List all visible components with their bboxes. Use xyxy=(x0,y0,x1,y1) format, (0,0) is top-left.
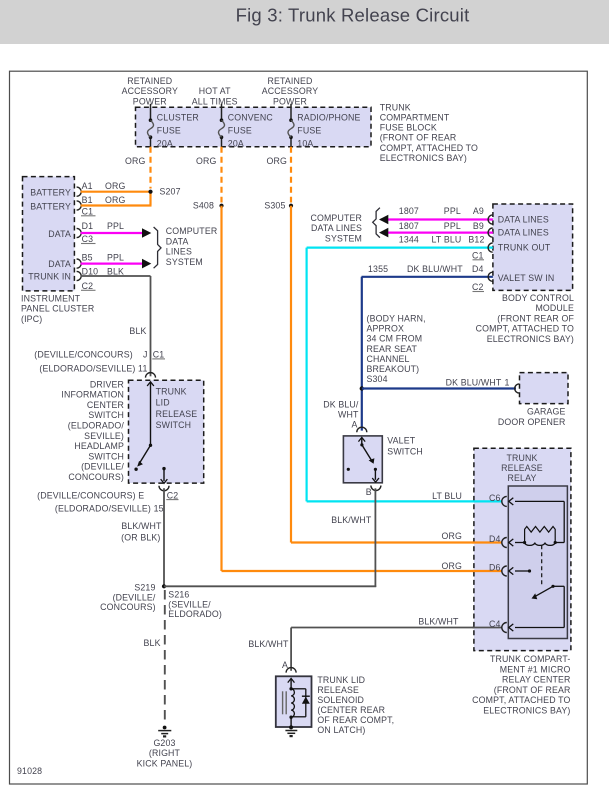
svg-text:DK BLU/: DK BLU/ xyxy=(323,399,359,409)
svg-text:BODY CONTROL: BODY CONTROL xyxy=(502,293,574,303)
svg-text:S408: S408 xyxy=(193,201,214,211)
svg-text:1355: 1355 xyxy=(368,264,388,274)
svg-text:(ELDORADO/SEVILLE) 15: (ELDORADO/SEVILLE) 15 xyxy=(55,503,164,513)
svg-text:DATA LINES: DATA LINES xyxy=(498,215,549,225)
svg-text:APPROX: APPROX xyxy=(367,323,405,333)
svg-text:20A: 20A xyxy=(228,139,244,149)
svg-text:(DEVILLE/: (DEVILLE/ xyxy=(81,462,124,472)
svg-text:COMPT, ATTACHED TO: COMPT, ATTACHED TO xyxy=(472,695,570,705)
svg-text:ACCESSORY: ACCESSORY xyxy=(262,86,318,96)
svg-text:PPL: PPL xyxy=(107,253,124,263)
svg-text:1344: 1344 xyxy=(399,235,419,245)
svg-text:ELDORADO): ELDORADO) xyxy=(168,609,222,619)
svg-text:TRUNK: TRUNK xyxy=(506,453,537,463)
svg-text:TRUNK IN: TRUNK IN xyxy=(28,271,71,281)
svg-text:RETAINED: RETAINED xyxy=(267,76,312,86)
svg-text:B5: B5 xyxy=(82,253,93,263)
svg-text:INFORMATION: INFORMATION xyxy=(61,390,124,400)
svg-text:A: A xyxy=(351,420,357,430)
svg-text:MODULE: MODULE xyxy=(535,303,574,313)
svg-text:91028: 91028 xyxy=(17,766,42,776)
svg-text:C1: C1 xyxy=(153,350,165,360)
svg-text:BATTERY: BATTERY xyxy=(30,188,71,198)
svg-text:D4: D4 xyxy=(489,534,501,544)
svg-text:(RIGHT: (RIGHT xyxy=(149,748,181,758)
svg-text:CLUSTER: CLUSTER xyxy=(157,112,199,122)
svg-text:DATA LINES: DATA LINES xyxy=(311,223,362,233)
svg-text:VALET SW IN: VALET SW IN xyxy=(498,273,555,283)
svg-text:HOT AT: HOT AT xyxy=(199,86,231,96)
svg-text:C1: C1 xyxy=(472,251,484,261)
svg-text:ORG: ORG xyxy=(442,531,463,541)
svg-text:S219: S219 xyxy=(134,583,155,593)
svg-text:HEADLAMP: HEADLAMP xyxy=(74,441,124,451)
svg-text:GARAGE: GARAGE xyxy=(527,407,566,417)
svg-text:BLK/WHT: BLK/WHT xyxy=(331,515,372,525)
svg-text:DATA LINES: DATA LINES xyxy=(498,228,549,238)
svg-text:FUSE: FUSE xyxy=(157,125,181,135)
svg-text:C6: C6 xyxy=(489,493,501,503)
svg-text:FUSE BLOCK: FUSE BLOCK xyxy=(380,123,437,133)
svg-text:CONCOURS): CONCOURS) xyxy=(68,472,124,482)
svg-text:C3: C3 xyxy=(82,234,94,244)
svg-text:C2: C2 xyxy=(472,282,484,292)
svg-text:TRUNK: TRUNK xyxy=(156,387,187,397)
svg-text:SWITCH: SWITCH xyxy=(156,420,192,430)
svg-text:BLK: BLK xyxy=(107,267,124,277)
svg-text:LT BLU: LT BLU xyxy=(432,235,462,245)
svg-text:ORG: ORG xyxy=(442,561,463,571)
svg-text:D10: D10 xyxy=(82,267,99,277)
svg-text:C2: C2 xyxy=(82,281,94,291)
svg-text:(DEVILLE/CONCOURS): (DEVILLE/CONCOURS) xyxy=(34,350,133,360)
svg-text:TRUNK LID: TRUNK LID xyxy=(317,675,365,685)
svg-text:C1: C1 xyxy=(82,207,94,217)
svg-text:ELECTRONICS BAY): ELECTRONICS BAY) xyxy=(487,334,574,344)
svg-text:BREAKOUT): BREAKOUT) xyxy=(367,364,420,374)
svg-text:TRUNK OUT: TRUNK OUT xyxy=(498,242,551,252)
svg-text:TRUNK COMPART-: TRUNK COMPART- xyxy=(490,654,570,664)
svg-text:(FRONT REAR OF: (FRONT REAR OF xyxy=(497,313,574,323)
svg-text:BLK/WHT: BLK/WHT xyxy=(418,617,459,627)
svg-text:Fig 3: Trunk Release Circuit: Fig 3: Trunk Release Circuit xyxy=(236,4,470,25)
svg-text:PANEL CLUSTER: PANEL CLUSTER xyxy=(21,304,94,314)
svg-text:ALL TIMES: ALL TIMES xyxy=(192,97,238,107)
svg-text:BLK: BLK xyxy=(129,326,146,336)
svg-text:LINES: LINES xyxy=(166,247,192,257)
svg-text:CONCOURS): CONCOURS) xyxy=(100,602,156,612)
svg-text:DATA: DATA xyxy=(48,259,71,269)
svg-text:DATA: DATA xyxy=(166,236,189,246)
svg-text:INSTRUMENT: INSTRUMENT xyxy=(21,293,81,303)
svg-text:DOOR OPENER: DOOR OPENER xyxy=(498,417,566,427)
svg-text:RELEASE: RELEASE xyxy=(156,409,198,419)
svg-text:COMPT, ATTACHED TO: COMPT, ATTACHED TO xyxy=(476,324,574,334)
svg-text:SYSTEM: SYSTEM xyxy=(325,233,362,243)
svg-text:ORG: ORG xyxy=(267,156,288,166)
svg-text:CENTER: CENTER xyxy=(87,400,124,410)
svg-text:DRIVER: DRIVER xyxy=(90,379,124,389)
svg-text:(DEVILLE/CONCOURS) E: (DEVILLE/CONCOURS) E xyxy=(37,490,144,500)
svg-text:S216: S216 xyxy=(168,590,189,600)
svg-text:RETAINED: RETAINED xyxy=(127,76,172,86)
svg-text:ON LATCH): ON LATCH) xyxy=(317,725,365,735)
svg-text:COMPARTMENT: COMPARTMENT xyxy=(380,113,450,123)
svg-text:RELEASE: RELEASE xyxy=(501,463,543,473)
svg-text:(CENTER REAR: (CENTER REAR xyxy=(317,705,385,715)
svg-text:LT BLU: LT BLU xyxy=(432,491,462,501)
svg-text:ORG: ORG xyxy=(105,181,126,191)
svg-text:10A: 10A xyxy=(297,139,313,149)
svg-text:B12: B12 xyxy=(468,235,484,245)
svg-text:D1: D1 xyxy=(82,221,94,231)
svg-text:A1: A1 xyxy=(82,181,93,191)
svg-text:(ELDORADO/: (ELDORADO/ xyxy=(68,420,125,430)
svg-text:SWITCH: SWITCH xyxy=(387,446,423,456)
svg-text:PPL: PPL xyxy=(444,206,461,216)
svg-text:ACCESSORY: ACCESSORY xyxy=(122,86,178,96)
svg-text:ELECTRONICS BAY): ELECTRONICS BAY) xyxy=(380,153,467,163)
svg-text:SOLENOID: SOLENOID xyxy=(317,695,364,705)
svg-text:(FRONT OF REAR: (FRONT OF REAR xyxy=(380,133,457,143)
svg-text:OF REAR COMPT,: OF REAR COMPT, xyxy=(317,715,394,725)
svg-text:SEVILLE): SEVILLE) xyxy=(84,431,124,441)
svg-text:1807: 1807 xyxy=(399,206,419,216)
svg-text:POWER: POWER xyxy=(273,97,307,107)
svg-text:LID: LID xyxy=(156,398,170,408)
svg-text:J: J xyxy=(143,350,148,360)
svg-text:BATTERY: BATTERY xyxy=(30,201,71,211)
svg-text:FUSE: FUSE xyxy=(228,125,252,135)
svg-text:FUSE: FUSE xyxy=(297,125,321,135)
svg-text:COMPT, ATTACHED TO: COMPT, ATTACHED TO xyxy=(380,143,478,153)
svg-text:(SEVILLE/: (SEVILLE/ xyxy=(168,599,211,609)
svg-text:20A: 20A xyxy=(157,139,173,149)
svg-text:34 CM FROM: 34 CM FROM xyxy=(367,334,423,344)
svg-text:CONVENC: CONVENC xyxy=(228,112,274,122)
svg-text:(IPC): (IPC) xyxy=(21,314,42,324)
svg-text:S207: S207 xyxy=(160,187,181,197)
svg-text:COMPUTER: COMPUTER xyxy=(310,213,362,223)
svg-text:ORG: ORG xyxy=(105,195,126,205)
svg-text:DK BLU/WHT: DK BLU/WHT xyxy=(407,264,463,274)
svg-text:(BODY HARN,: (BODY HARN, xyxy=(367,313,426,323)
svg-text:SWITCH: SWITCH xyxy=(88,451,124,461)
svg-text:C4: C4 xyxy=(489,619,501,629)
svg-text:ORG: ORG xyxy=(196,156,217,166)
svg-text:D4: D4 xyxy=(472,264,484,274)
svg-text:B: B xyxy=(366,487,372,497)
svg-text:COMPUTER: COMPUTER xyxy=(166,226,218,236)
svg-text:RELAY: RELAY xyxy=(508,473,537,483)
svg-text:SWITCH: SWITCH xyxy=(88,410,124,420)
svg-text:KICK PANEL): KICK PANEL) xyxy=(137,758,193,768)
svg-text:(FRONT OF REAR: (FRONT OF REAR xyxy=(494,685,571,695)
svg-text:DATA: DATA xyxy=(48,229,71,239)
svg-text:(ELDORADO/SEVILLE) 11: (ELDORADO/SEVILLE) 11 xyxy=(39,364,147,374)
svg-text:(OR BLK): (OR BLK) xyxy=(121,533,160,543)
svg-text:CHANNEL: CHANNEL xyxy=(367,354,410,364)
svg-text:A9: A9 xyxy=(473,206,484,216)
svg-text:VALET: VALET xyxy=(387,436,415,446)
svg-text:REAR SEAT: REAR SEAT xyxy=(367,344,418,354)
svg-text:TRUNK: TRUNK xyxy=(380,102,411,112)
svg-text:B1: B1 xyxy=(82,195,93,205)
svg-text:A: A xyxy=(282,660,288,670)
svg-text:PPL: PPL xyxy=(444,221,461,231)
svg-text:BLK/WHT: BLK/WHT xyxy=(121,521,162,531)
svg-text:C2: C2 xyxy=(167,490,179,500)
svg-text:DK BLU/WHT: DK BLU/WHT xyxy=(446,377,502,387)
svg-text:B9: B9 xyxy=(473,221,484,231)
svg-text:SYSTEM: SYSTEM xyxy=(166,257,203,267)
svg-text:BLK: BLK xyxy=(144,638,161,648)
svg-text:1807: 1807 xyxy=(399,221,419,231)
svg-text:ORG: ORG xyxy=(125,156,146,166)
svg-text:RELEASE: RELEASE xyxy=(317,685,359,695)
svg-text:S305: S305 xyxy=(264,201,285,211)
svg-text:1: 1 xyxy=(504,377,509,387)
svg-text:G203: G203 xyxy=(153,738,175,748)
svg-text:RELAY CENTER: RELAY CENTER xyxy=(502,675,570,685)
svg-text:S304: S304 xyxy=(367,374,388,384)
svg-text:MENT #1 MICRO: MENT #1 MICRO xyxy=(500,664,571,674)
svg-text:BLK/WHT: BLK/WHT xyxy=(248,639,289,649)
svg-text:RADIO/PHONE: RADIO/PHONE xyxy=(297,112,360,122)
svg-text:PPL: PPL xyxy=(107,221,124,231)
svg-text:ELECTRONICS BAY): ELECTRONICS BAY) xyxy=(483,706,570,716)
svg-text:WHT: WHT xyxy=(338,410,359,420)
svg-text:D6: D6 xyxy=(489,563,501,573)
